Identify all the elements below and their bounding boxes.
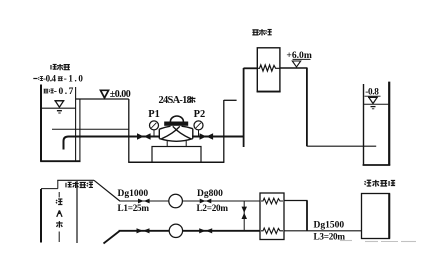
svg-text:-0.8: -0.8 [365, 87, 379, 97]
svg-text:Dg1500: Dg1500 [314, 220, 345, 230]
svg-text:-0.4: -0.4 [43, 74, 57, 84]
svg-text:24SA-18: 24SA-18 [159, 95, 192, 106]
svg-text:Dg1000: Dg1000 [118, 189, 149, 199]
svg-text:-1.0: -1.0 [64, 74, 85, 84]
svg-text:±0.00: ±0.00 [110, 89, 131, 100]
svg-text:-0.7: -0.7 [54, 87, 75, 97]
svg-text:Dg800: Dg800 [197, 189, 223, 199]
svg-text:L2=20m: L2=20m [197, 203, 229, 213]
svg-text:L1=25m: L1=25m [118, 203, 150, 213]
svg-text:P1: P1 [148, 109, 160, 120]
svg-text:L3=20m: L3=20m [314, 231, 346, 241]
svg-text:P2: P2 [194, 109, 206, 120]
